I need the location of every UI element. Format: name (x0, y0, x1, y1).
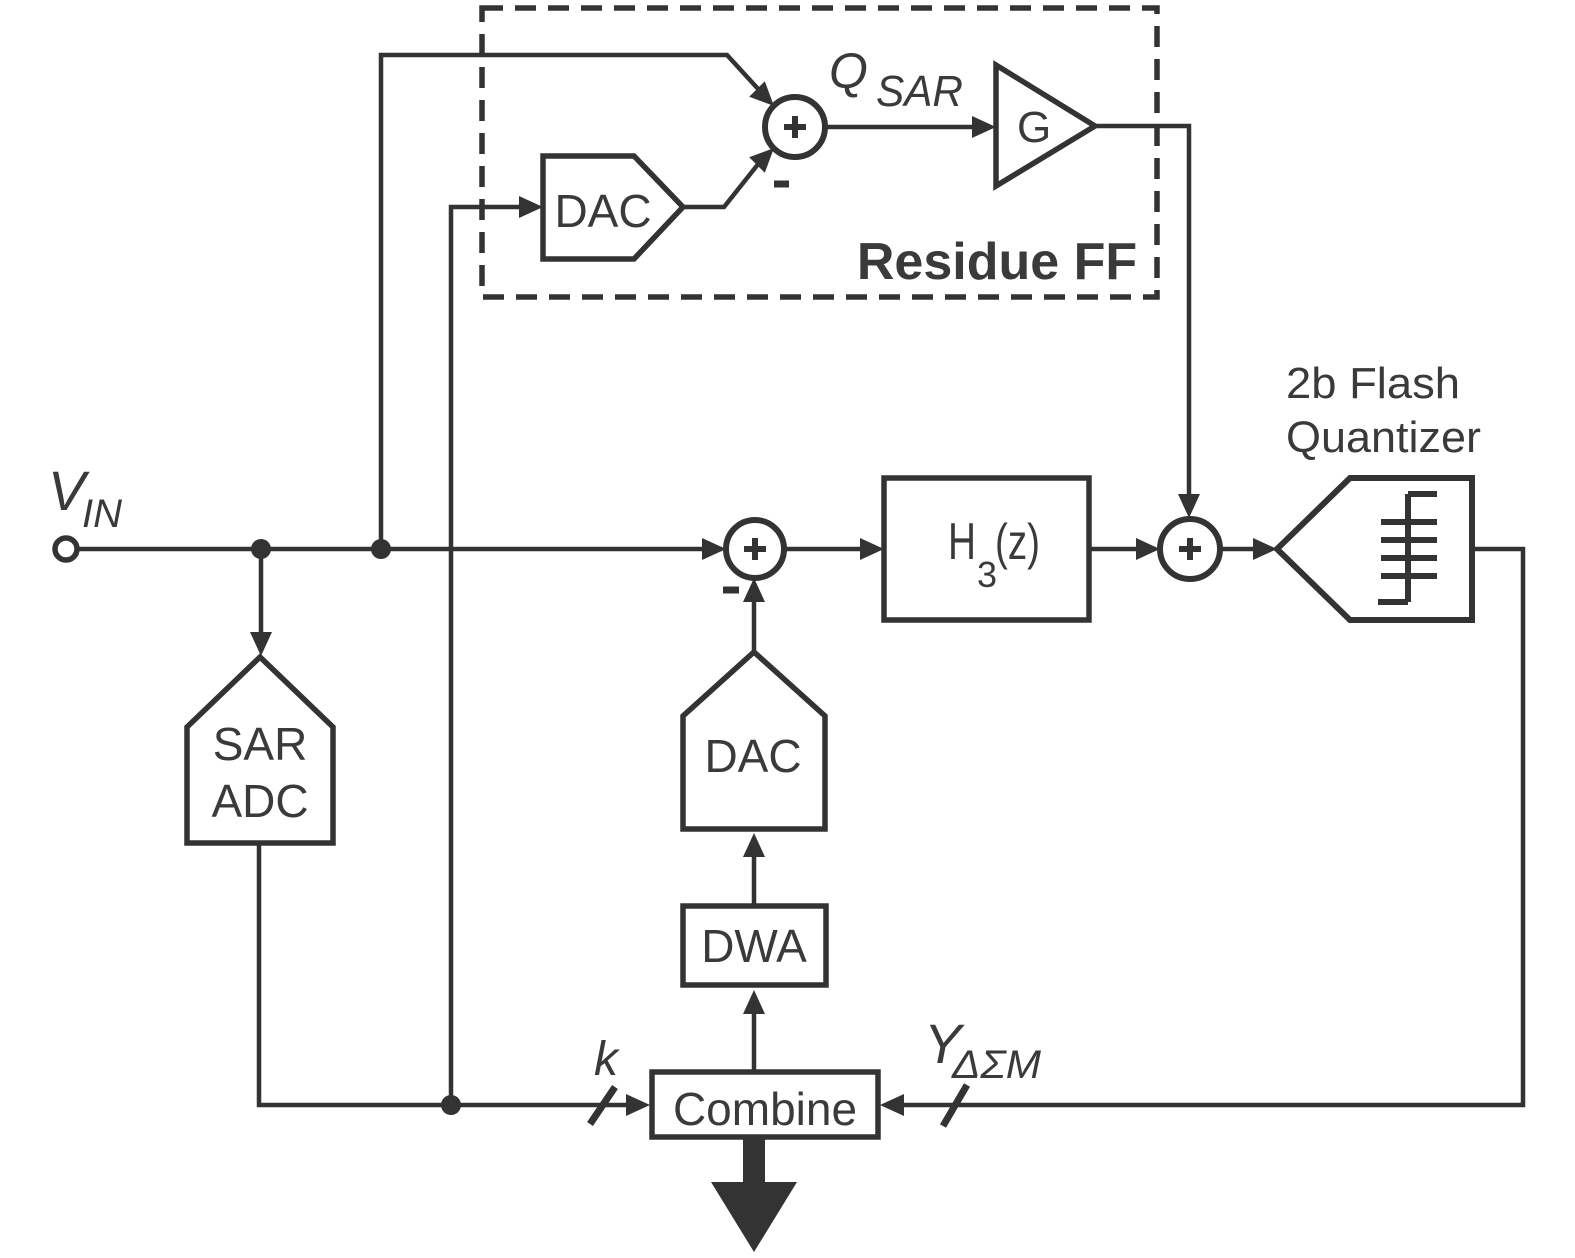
block Combine (652, 1072, 878, 1137)
wire G output right then down to sum2 (1095, 126, 1189, 510)
svg-text:SAR: SAR (876, 67, 963, 116)
minus sign at S0 (774, 181, 789, 188)
wire sum1 to H3(z) (784, 547, 877, 552)
wire DAC1 output to sum0 minus input (683, 163, 759, 207)
node VIN input terminal (55, 538, 77, 560)
wire H3(z) to sum2 (1089, 547, 1152, 552)
summing junction S0 in Residue FF (765, 97, 825, 157)
svg-text:ΔΣM: ΔΣM (951, 1043, 1042, 1087)
wire junction C up to DAC1 input (451, 207, 536, 1105)
wire main input VIN to sum1 (77, 547, 722, 552)
svg-text:Quantizer: Quantizer (1286, 413, 1481, 462)
svg-text:IN: IN (82, 492, 122, 536)
svg-text:H: H (948, 513, 976, 571)
svg-text:2b Flash: 2b Flash (1286, 359, 1460, 408)
output arrow (thick) below Combine (711, 1137, 797, 1252)
svg-text:k: k (594, 1033, 621, 1086)
node junction dot A (251, 539, 271, 559)
wire DAC2 up to sum1 minus (752, 586, 757, 652)
wire sum2 to quantizer (1220, 547, 1270, 552)
svg-text:DWA: DWA (701, 920, 807, 972)
block H3(z) (884, 478, 1089, 620)
svg-text:Q: Q (829, 43, 868, 99)
node junction dot B (371, 539, 391, 559)
summing junction S2 (1160, 519, 1220, 579)
wire junction B up and right to sum1 top input (381, 55, 760, 549)
SAR ADC block (187, 657, 333, 843)
minus sign at S1 (723, 587, 739, 594)
bus slash YDSM (943, 1085, 967, 1126)
svg-text:Combine: Combine (673, 1083, 857, 1135)
wire Combine to DWA (752, 998, 757, 1072)
svg-text:G: G (1017, 103, 1051, 152)
svg-text:DAC: DAC (704, 730, 801, 782)
svg-text:ADC: ADC (211, 775, 308, 827)
svg-text:SAR: SAR (213, 718, 308, 770)
summing junction S1 (main path) (726, 520, 784, 578)
amplifier G (996, 65, 1095, 186)
dashed box Residue FF (482, 8, 1157, 297)
node junction dot C (441, 1095, 461, 1115)
wire sum0 to G (825, 125, 988, 130)
2b Flash Quantizer block (1277, 478, 1472, 620)
wire DWA to DAC2 (752, 846, 757, 906)
block DWA (683, 906, 826, 985)
quantizer staircase icon (1378, 494, 1437, 602)
DAC D2 pentagon (feedback DAC) (683, 652, 825, 829)
svg-text:DAC: DAC (554, 185, 651, 237)
DAC D1 pentagon in Residue FF (543, 156, 683, 259)
bus slash k (590, 1087, 615, 1124)
wire junction A down to SAR ADC (259, 549, 264, 638)
svg-text:(z): (z) (995, 514, 1040, 570)
wire quantizer output feedback to Combine (888, 549, 1523, 1105)
wire SAR ADC output down and right to Combine (259, 843, 642, 1105)
svg-text:Residue FF: Residue FF (857, 233, 1137, 291)
